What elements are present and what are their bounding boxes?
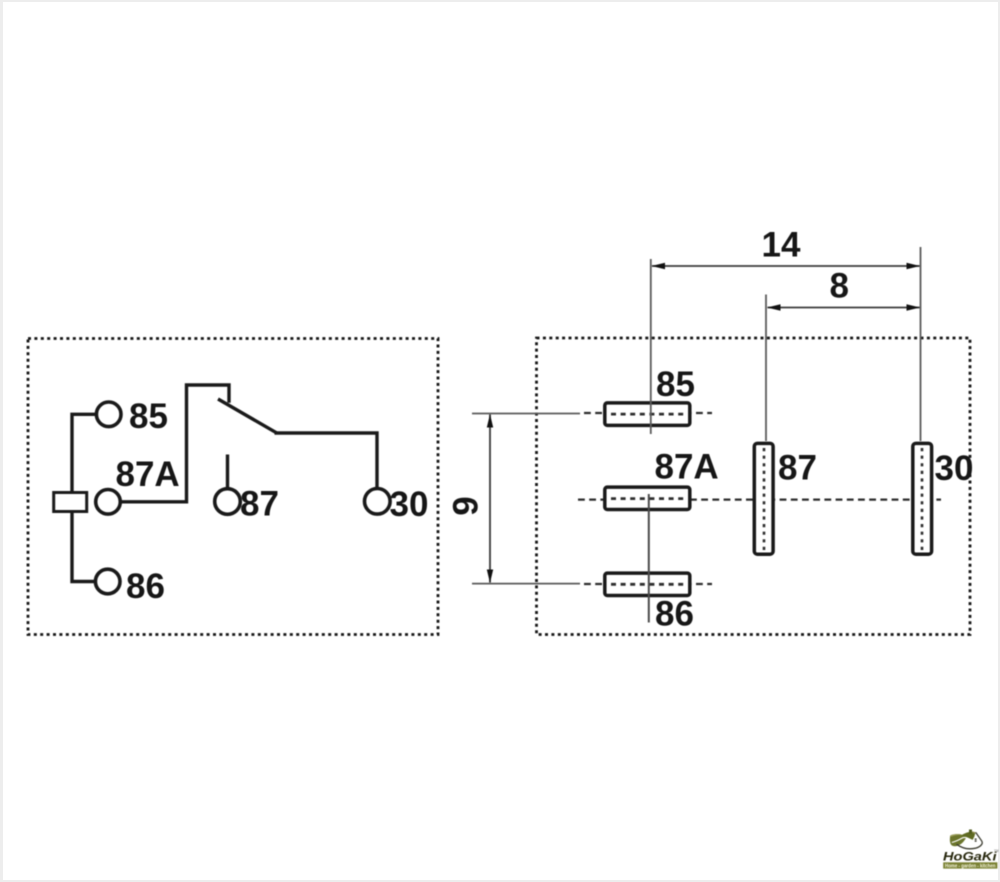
terminal circle 87A xyxy=(96,490,121,515)
HoGaKi logo roof xyxy=(961,832,975,840)
svg-text:Home - garden - kitchen: Home - garden - kitchen xyxy=(945,863,996,869)
blade 87 inner dashes xyxy=(763,448,766,551)
wire: coil bottom to 86 xyxy=(72,513,95,582)
pin blade 85 xyxy=(605,403,690,426)
coil L1 xyxy=(54,493,87,512)
svg-text:9: 9 xyxy=(447,496,486,515)
svg-text:85: 85 xyxy=(129,397,168,436)
svg-text:30: 30 xyxy=(390,485,429,524)
HoGaKi logo roof highlight xyxy=(970,831,976,833)
extension line above pin 87 xyxy=(765,295,767,442)
switch arm xyxy=(218,399,277,433)
arrow 9 top xyxy=(487,414,493,428)
extension line 9 top xyxy=(472,413,580,415)
HoGaKi logo leaf xyxy=(950,834,966,846)
svg-text:86: 86 xyxy=(126,567,165,606)
arrow 8 left xyxy=(767,304,781,310)
left schematic dashed enclosure xyxy=(28,339,438,635)
extension line through pin 85 xyxy=(650,259,652,434)
svg-text:TM: TM xyxy=(994,849,999,853)
svg-text:87: 87 xyxy=(240,485,279,524)
svg-text:14: 14 xyxy=(762,226,801,265)
wire: stub above terminal 87 xyxy=(226,455,229,489)
arrow 14 right xyxy=(907,263,921,269)
blade 30 inner dashes xyxy=(921,448,924,551)
blade 85 inner dashes xyxy=(611,413,687,416)
terminal circle 30 xyxy=(365,489,391,515)
dimension line 14 xyxy=(652,265,920,267)
centerline row 86 xyxy=(584,583,712,585)
svg-text:30: 30 xyxy=(935,449,974,488)
svg-text:87A: 87A xyxy=(655,448,719,487)
HoGaKi logo chimney xyxy=(969,830,972,834)
blade 86 inner dashes xyxy=(611,583,687,586)
HoGaKi logo house body xyxy=(967,833,982,849)
pin blade 86 xyxy=(605,573,690,595)
arrow 9 bottom xyxy=(487,570,493,584)
centerline row 85 xyxy=(584,412,712,414)
pin blade 30 (vertical) xyxy=(913,443,932,554)
extension line through pins 87A and 86 xyxy=(648,494,650,623)
svg-text:HoGaKi: HoGaKi xyxy=(943,849,997,863)
terminal circle 85 xyxy=(96,402,121,427)
blade 87A inner dashes xyxy=(611,497,687,500)
extension line above pin 30 xyxy=(920,247,922,441)
wire: 87A to switch pivot riser xyxy=(121,385,229,502)
arrow 8 right xyxy=(907,304,921,310)
svg-text:86: 86 xyxy=(655,595,694,634)
HoGaKi logo swoosh teardrop xyxy=(957,832,983,848)
extension line 9 bottom xyxy=(472,583,580,585)
wire: switch arm to terminal 30 xyxy=(275,433,378,488)
pin blade 87 (vertical) xyxy=(754,443,773,554)
svg-text:87A: 87A xyxy=(116,455,180,494)
pin blade 87A xyxy=(605,487,690,509)
terminal circle 86 xyxy=(95,569,120,594)
svg-text:8: 8 xyxy=(830,267,849,306)
right pin-layout dashed enclosure xyxy=(537,338,971,635)
HoGaKi logo windows xyxy=(975,839,977,840)
svg-text:85: 85 xyxy=(656,365,695,404)
terminal circle 87 xyxy=(215,489,241,515)
wire: 85 to coil top xyxy=(72,414,96,491)
dimension line 9 xyxy=(489,415,491,583)
arrow 14 left xyxy=(652,263,666,269)
svg-text:87: 87 xyxy=(778,449,817,488)
dimension line 8 xyxy=(768,307,920,309)
HoGaKi banner xyxy=(943,862,997,868)
centerline row 87A-87-30 xyxy=(578,499,941,501)
